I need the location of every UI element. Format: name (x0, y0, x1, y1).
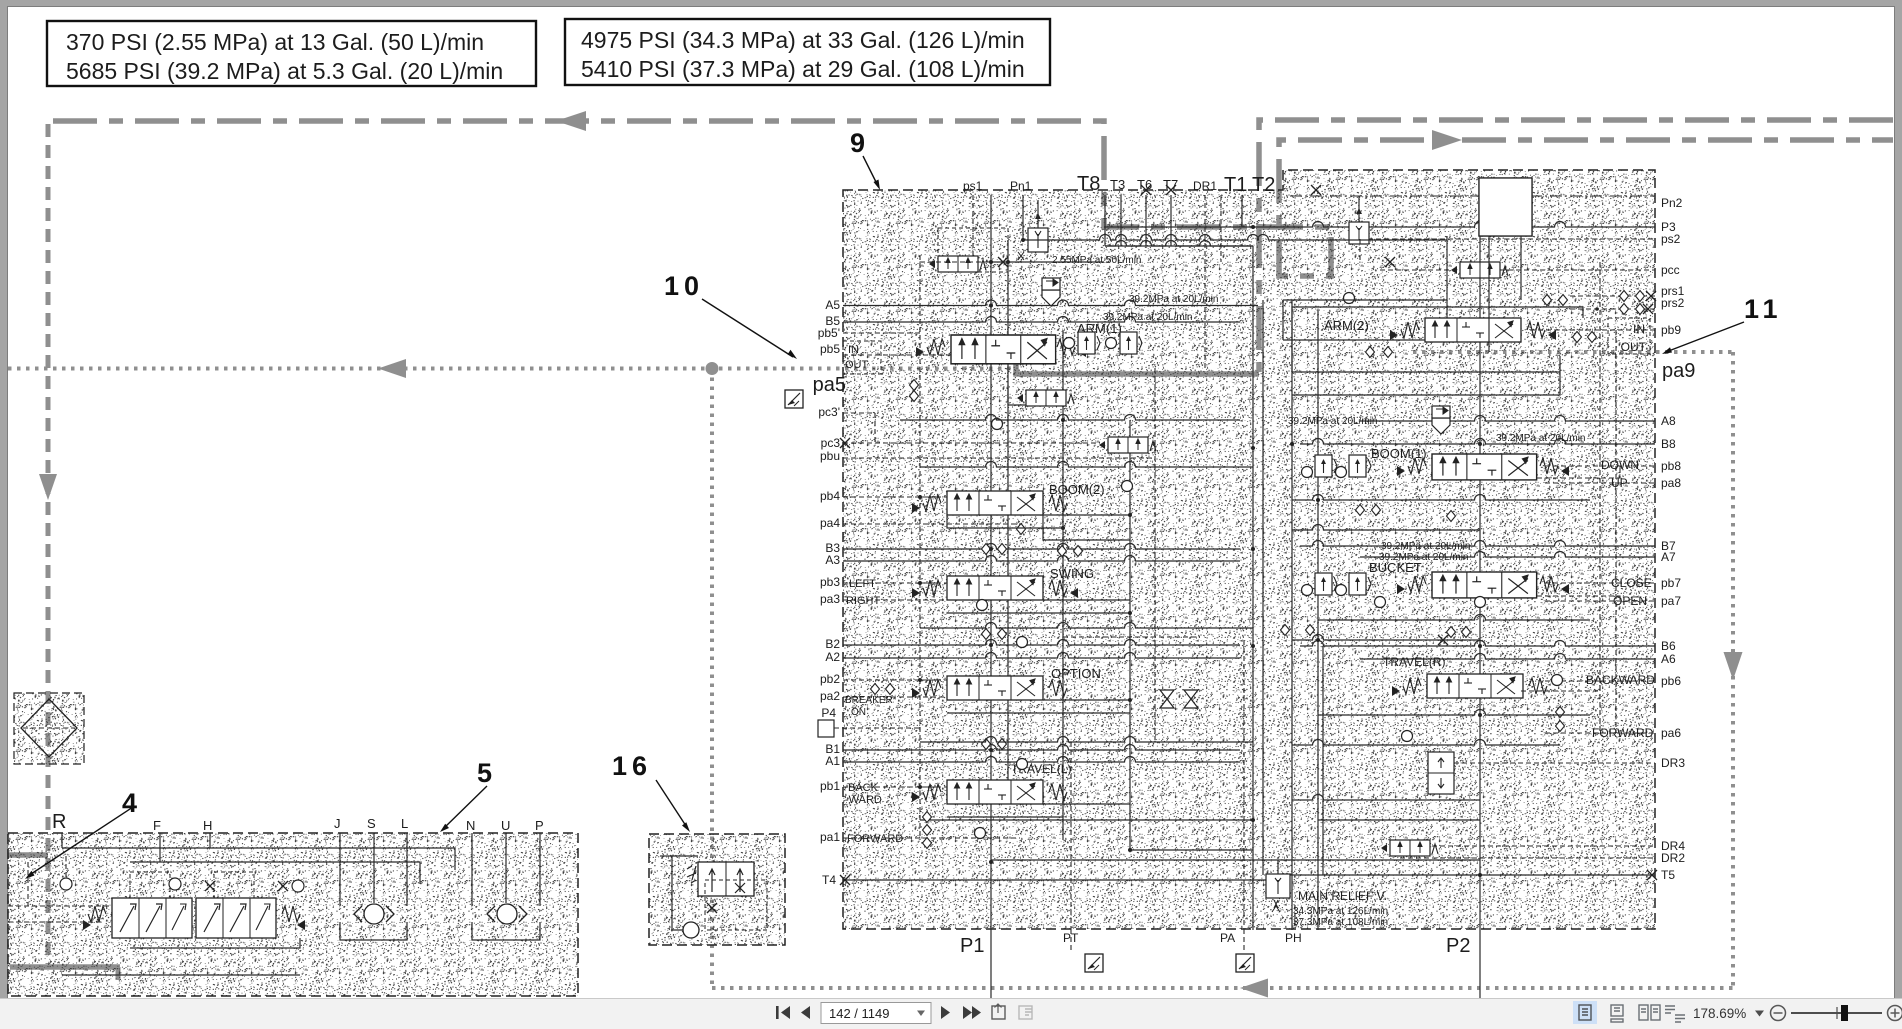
svg-text:F: F (153, 818, 161, 833)
svg-text:pa5: pa5 (813, 374, 846, 396)
wire H drop (209, 833, 211, 848)
svg-text:T8: T8 (1077, 173, 1100, 195)
svg-text:pc3': pc3' (818, 405, 840, 419)
svg-text:B8: B8 (1661, 437, 1676, 451)
wire travelR loop a (1318, 710, 1590, 716)
wire pilot relief out (991, 261, 1104, 263)
wire net l (1283, 339, 1425, 341)
wire T3 vertical (1120, 195, 1122, 246)
svg-text:T6: T6 (1137, 177, 1152, 192)
wire pump rail top (62, 848, 455, 870)
spring left of spool A (88, 906, 106, 922)
wire: right bank vertical 2 (1317, 310, 1319, 930)
svg-text:BACK: BACK (848, 782, 879, 794)
svg-text:pb7: pb7 (1661, 576, 1681, 590)
wire: neutral bypass left bank (1007, 240, 1009, 790)
svg-text:J: J (334, 816, 341, 831)
svg-text:RIGHT: RIGHT (846, 595, 881, 607)
wire T6 vertical (1145, 195, 1147, 246)
orifice travelL (923, 812, 932, 823)
wire block16 dashed box (705, 880, 767, 930)
svg-text:Pn1: Pn1 (1010, 179, 1032, 193)
valve: boom2 aux (1099, 437, 1156, 453)
valve ARM(2) spool (1425, 318, 1521, 342)
svg-text:T2: T2 (1252, 174, 1275, 196)
wire: center tank return vertical (1252, 246, 1254, 930)
svg-text:T4: T4 (822, 873, 836, 887)
svg-text:A5: A5 (825, 298, 840, 312)
wire pump dash v (65, 856, 67, 878)
wire N drop (471, 833, 473, 906)
pilot cap B (214, 872, 254, 898)
arrow left on pa5 dotted line (378, 359, 406, 378)
svg-text:FORWARD: FORWARD (847, 833, 903, 845)
wire DR1 vertical (1204, 195, 1206, 368)
svg-text:pb9: pb9 (1661, 323, 1681, 337)
tank box overdraw (1479, 178, 1532, 236)
wire ps2 riser (1359, 239, 1361, 262)
wire boom2 out a (947, 515, 1063, 528)
valve TRAVEL(L) spool (947, 780, 1043, 804)
button next page (941, 1006, 950, 1019)
valve: ARM(1) aux spool (1017, 390, 1074, 406)
valve: travel check spool (698, 862, 754, 896)
valve BOOM(2) spool (947, 491, 1043, 515)
orifice bucket (1281, 625, 1290, 636)
orifice arm2 pilots (1384, 347, 1393, 358)
button first page (776, 1006, 790, 1019)
wire: right bank vertical 3 (1446, 236, 1448, 318)
button previous page (801, 1006, 810, 1019)
IN/OUT box right (1608, 318, 1650, 354)
wire: PA drain stub (1243, 929, 1245, 953)
wire net h (1043, 514, 1130, 516)
svg-text:A6: A6 (1661, 652, 1676, 666)
svg-text:pa4: pa4 (820, 516, 840, 530)
svg-text:ON: ON (851, 707, 866, 718)
wire: pa9 dotted stub into block (1413, 350, 1733, 354)
svg-text:pb6: pb6 (1661, 674, 1681, 688)
valve: DR3 logic (1428, 752, 1454, 794)
wire Pn1 crossfeed (1023, 235, 1447, 241)
wire right out a (1292, 795, 1480, 801)
svg-text:PA: PA (1220, 931, 1235, 945)
svg-text:pa3: pa3 (820, 592, 840, 606)
valve: pcc solenoid (1451, 262, 1508, 278)
wire: bottom gallery 1 (920, 819, 1253, 821)
wire: left bank gallery (1062, 330, 1064, 820)
svg-text:A7: A7 (1661, 550, 1676, 564)
wire T8 vertical (1104, 195, 1106, 246)
wire gallery 467 (920, 462, 1253, 467)
svg-text:BACKWARD: BACKWARD (1586, 673, 1655, 687)
wire pump out (130, 938, 300, 948)
svg-text:BOOM(1): BOOM(1) (1371, 446, 1427, 461)
svg-text:39.2MPa at 20L/min: 39.2MPa at 20L/min (1381, 541, 1471, 552)
check block16 (683, 922, 699, 938)
wire net q (1322, 646, 1324, 875)
wire gallery 742 (920, 737, 1253, 743)
check pump b (169, 878, 181, 890)
connector PT (1085, 954, 1103, 972)
valve: DR4 solenoid (1381, 840, 1438, 856)
svg-text:11: 11 (1744, 294, 1783, 324)
wire gallery 420 (900, 415, 1240, 420)
svg-text:pa2: pa2 (820, 689, 840, 703)
wire: dotted bottom run to pa9 (712, 986, 1733, 990)
arrow down on right dotted riser (1724, 652, 1743, 680)
svg-text:U: U (501, 818, 510, 833)
svg-text:A1: A1 (825, 754, 840, 768)
button snapshot (992, 1004, 1005, 1019)
svg-text:T1: T1 (1224, 174, 1247, 196)
wire F drop (159, 833, 161, 862)
wire: mid drain vertical (1129, 420, 1131, 850)
svg-text:37.3MPa at 108L/min: 37.3MPa at 108L/min (1293, 917, 1388, 928)
wire net d (920, 496, 947, 498)
svg-text:5: 5 (477, 758, 497, 788)
wire: right bank feed vertical (1291, 300, 1293, 930)
wire net g (920, 786, 947, 788)
arrow left on return line (556, 111, 586, 131)
svg-text:39.2MPa at 20L/min: 39.2MPa at 20L/min (1496, 433, 1586, 444)
gallery bumps at tank ports (1105, 241, 1253, 246)
svg-text:DR2: DR2 (1661, 851, 1685, 865)
valve SWING spool (947, 576, 1043, 600)
check pump c (292, 880, 304, 892)
wire net k (1043, 803, 1130, 805)
wire ps1 vertical (972, 195, 974, 262)
svg-text:A8: A8 (1661, 414, 1676, 428)
svg-text:R: R (52, 811, 66, 833)
check bucket (1375, 597, 1386, 608)
toolbar (0, 998, 1902, 1029)
svg-text:A2: A2 (825, 650, 840, 664)
note box: main pump spec (565, 19, 1050, 85)
svg-text:pa7: pa7 (1661, 594, 1681, 608)
wire pump drop1 (61, 833, 63, 848)
wire boom1 loop a (1292, 495, 1590, 500)
wire: P2 supply vertical (1479, 236, 1481, 1002)
button snapshot 2 (disabled) (1019, 1006, 1032, 1019)
wire pilot rail right dashed (1615, 330, 1617, 733)
valve BOOM(1) spool (1432, 454, 1537, 480)
svg-text:pb1: pb1 (820, 779, 840, 793)
pilot section dashed box top-left (938, 228, 1008, 272)
svg-text:pa9: pa9 (1662, 360, 1695, 382)
svg-text:2.55MPa at 50L/min: 2.55MPa at 50L/min (1052, 255, 1142, 266)
junction dots (989, 304, 993, 308)
svg-text:4: 4 (122, 788, 142, 818)
arrow right on T2 line (1432, 130, 1462, 150)
wire mid dashed 637 (1063, 636, 1200, 638)
svg-text:T3: T3 (1110, 177, 1125, 192)
check valve boom2 (992, 419, 1003, 430)
svg-text:Pn2: Pn2 (1661, 196, 1683, 210)
check arm2 (1344, 293, 1355, 304)
svg-text:16: 16 (612, 751, 652, 781)
wire T1 vertical (1241, 195, 1243, 227)
wire net b (1008, 385, 1026, 405)
spool B third cell mark (256, 904, 270, 930)
svg-text:pcc: pcc (1661, 263, 1680, 277)
svg-text:142 / 1149: 142 / 1149 (829, 1006, 889, 1021)
svg-text:4975 PSI (34.3 MPa) at 33 Gal.: 4975 PSI (34.3 MPa) at 33 Gal. (126 L)/m… (581, 27, 1025, 53)
svg-text:pb4: pb4 (820, 489, 840, 503)
wire net n (1537, 466, 1620, 478)
zoom slider (1791, 1012, 1882, 1014)
wire L drop (406, 833, 408, 906)
orifice travelR (1556, 707, 1565, 718)
zoom out button (1771, 1006, 1786, 1021)
anti-cavitation check A8 (1432, 406, 1450, 434)
check valve JSL (364, 904, 384, 924)
valve ARM(1) main spool (951, 335, 1056, 364)
wire: bottom gallery 2 (991, 859, 1480, 861)
check option (1017, 637, 1028, 648)
wire block16 loop (672, 856, 698, 862)
wire bucket loop a (1318, 615, 1590, 620)
wire net s (1062, 820, 1064, 840)
viewer frame left (0, 0, 7, 998)
valve TRAVEL(R) spool (1427, 674, 1523, 698)
connector pa5 (785, 390, 803, 408)
junction dot on pa5 line (706, 362, 719, 375)
svg-text:pa8: pa8 (1661, 476, 1681, 490)
wire Pn1 vertical (1022, 195, 1024, 240)
svg-text:P2: P2 (1446, 935, 1470, 957)
svg-text:FORWARD: FORWARD (1592, 726, 1654, 740)
wire net a (920, 261, 1008, 263)
check pump a (60, 878, 72, 890)
ARM(2) section outline (1292, 307, 1583, 372)
wire right out b (1318, 819, 1480, 821)
wire PT riser dashed (1070, 742, 1072, 929)
page number input (821, 1003, 931, 1024)
wire U drop (505, 833, 507, 903)
valve BUCKET spool (1432, 572, 1537, 598)
svg-text:5410 PSI (37.3 MPa) at 29 Gal.: 5410 PSI (37.3 MPa) at 29 Gal. (108 L)/m… (581, 56, 1025, 82)
svg-text:39.2MPa at 20L/min: 39.2MPa at 20L/min (1288, 416, 1378, 427)
shutoff valves (1160, 690, 1174, 708)
relief pair BOOM(1) (1302, 467, 1313, 478)
svg-text:pbu: pbu (820, 449, 840, 463)
wire: center vertical 2 (1262, 300, 1264, 875)
svg-text:prs2: prs2 (1661, 296, 1685, 310)
svg-text:DR3: DR3 (1661, 756, 1685, 770)
wire pump dash v2 (27, 862, 29, 906)
svg-text:N: N (466, 818, 475, 833)
check travelR (1402, 731, 1413, 742)
orifice option (871, 684, 880, 695)
valve: pump regulator spool A (112, 898, 192, 938)
arrow down on suction line (39, 474, 57, 500)
orifice boom1 (1356, 505, 1365, 516)
wire net f (920, 679, 947, 681)
wire net m (1283, 299, 1447, 301)
svg-text:LEFT: LEFT (849, 578, 876, 590)
wire net i (1043, 599, 1130, 601)
svg-text:H: H (203, 818, 212, 833)
wire swing out (947, 612, 1130, 614)
svg-text:BOOM(2): BOOM(2) (1049, 482, 1105, 497)
svg-text:10: 10 (664, 271, 704, 301)
wire PA riser dashed (1243, 640, 1245, 929)
orifice option b (982, 739, 991, 750)
relief pair BUCKET (1302, 585, 1313, 596)
anti-cavitation check A5 (1042, 278, 1060, 306)
wire JSL bottom (340, 922, 407, 940)
svg-text:ps2: ps2 (1661, 232, 1681, 246)
wire NUP bottom (472, 922, 540, 940)
relief pair ARM(1) (1064, 338, 1075, 349)
wire arm2 loop (1292, 356, 1560, 395)
svg-text:9: 9 (850, 128, 870, 158)
svg-text:P: P (535, 818, 544, 833)
spring block16 (687, 866, 696, 883)
orifice pair near pb5 (910, 380, 919, 391)
svg-text:pc3: pc3 (821, 436, 841, 450)
filter F1 element (21, 699, 77, 757)
svg-text:pb3: pb3 (820, 575, 840, 589)
svg-text:ps1: ps1 (963, 179, 983, 193)
wire: right bank pilot rail (1599, 262, 1601, 733)
svg-text:B6: B6 (1661, 639, 1676, 653)
zoom in button (1888, 1006, 1902, 1021)
relief valve MAIN RELIEF V. (1266, 874, 1290, 898)
spool A third cell mark (172, 904, 186, 930)
svg-text:5685 PSI (39.2 MPa) at 5.3 Gal: 5685 PSI (39.2 MPa) at 5.3 Gal. (20 L)/m… (66, 58, 503, 84)
viewer frame right (1894, 0, 1902, 998)
wire T2 vertical (1220, 195, 1222, 262)
svg-text:T5: T5 (1661, 868, 1675, 882)
tank legs (1488, 236, 1490, 352)
wire tank gallery (1105, 245, 1253, 247)
svg-text:OUT: OUT (845, 359, 869, 371)
wire: tank return line T1 (thick grey dashed) (1259, 120, 1893, 372)
svg-text:370 PSI (2.55 MPa) at 13 Gal.: 370 PSI (2.55 MPa) at 13 Gal. (50 L)/min (66, 29, 484, 55)
wire pc3 elbow (874, 413, 876, 443)
svg-text:34.3MPa at 126L/min: 34.3MPa at 126L/min (1293, 906, 1388, 917)
svg-text:BUCKET: BUCKET (1369, 560, 1422, 575)
wire: suction line elbow lower (10, 964, 120, 970)
svg-text:pb5: pb5 (820, 342, 840, 356)
wire: pa5 pilot line (grey dotted) from left edge (8, 367, 1012, 371)
svg-text:S: S (367, 816, 376, 831)
check dr (1552, 675, 1563, 686)
svg-text:pb5': pb5' (818, 326, 840, 340)
wire net o (1537, 596, 1620, 601)
svg-text:P1: P1 (960, 935, 984, 957)
wire: tank return line T8 (thick grey dashed) (53, 121, 1893, 276)
svg-text:OPTION: OPTION (1051, 666, 1101, 681)
wire P drop (539, 833, 541, 906)
svg-text:178.69%: 178.69% (1693, 1006, 1746, 1021)
relief valve: pilot 2.55MPa (1028, 228, 1048, 252)
IN/OUT box left (843, 341, 881, 374)
svg-text:pa6: pa6 (1661, 726, 1681, 740)
wire net r (1130, 849, 1253, 851)
check block 16 outline (649, 834, 785, 945)
svg-text:CLOSE: CLOSE (1611, 576, 1652, 590)
wire net p (1521, 681, 1600, 691)
svg-text:IN: IN (848, 344, 859, 356)
svg-text:SWING: SWING (1050, 566, 1094, 581)
viewer frame top (0, 0, 1902, 6)
wire pump rail 2 (130, 862, 420, 884)
valve: pilot selector sv (929, 256, 986, 272)
svg-text:-WARD: -WARD (845, 794, 882, 806)
view mode buttons (1573, 1001, 1597, 1024)
pilot cap A (130, 872, 170, 898)
wire net j (1043, 699, 1130, 701)
connector PA (1236, 954, 1254, 972)
wire pump pilot a (8, 905, 112, 907)
svg-text:OUT: OUT (1621, 340, 1647, 354)
wire T7 vertical (1170, 195, 1172, 246)
wire option out (947, 712, 1130, 714)
wire travelR loop b (1292, 740, 1560, 746)
wire net c (938, 354, 951, 356)
wire: suction line to tank (thick grey dashed vertical) (46, 124, 51, 852)
spring right of spool B (282, 906, 300, 922)
wire net e (920, 582, 947, 584)
svg-text:MAIN RELIEF V.: MAIN RELIEF V. (1298, 889, 1387, 903)
svg-text:A3: A3 (825, 553, 840, 567)
wire: PT drain stub (1070, 929, 1072, 953)
orifice swing (982, 629, 991, 640)
svg-text:pa1: pa1 (820, 830, 840, 844)
svg-text:B2: B2 (825, 637, 840, 651)
relief valve pcc side (1349, 222, 1369, 244)
wire: pilot rail left bank (919, 255, 921, 840)
svg-text:ARM(2): ARM(2) (1324, 318, 1369, 333)
svg-text:39.2MPa at 20L/min: 39.2MPa at 20L/min (1129, 294, 1219, 305)
wire: suction line elbow upper (8, 852, 48, 858)
button last page (963, 1006, 981, 1019)
svg-text:BREAKER: BREAKER (845, 695, 893, 706)
svg-text:PH: PH (1285, 931, 1302, 945)
arrow left on bottom dotted run (1240, 979, 1268, 998)
wire boom2 out b (1043, 515, 1130, 540)
svg-text:pb8: pb8 (1661, 459, 1681, 473)
note box: pilot pump spec (47, 21, 536, 86)
wire travelL out (947, 816, 1063, 818)
check travelL (1017, 759, 1028, 770)
pump block outline (8, 833, 578, 996)
orifice boom2 (1017, 524, 1026, 535)
svg-text:IN: IN (1633, 322, 1645, 336)
wire: pa5 highlighted pilot line inside block (thick grey solid) (1016, 358, 1259, 374)
filter F1 enclosure (14, 693, 84, 764)
wire: dotted branch down to check block 16 (710, 369, 714, 989)
wire bucket loop b (1292, 635, 1480, 641)
svg-text:pb2: pb2 (820, 672, 840, 686)
svg-text:TRAVEL(R): TRAVEL(R) (1383, 655, 1445, 669)
wire pump bottom rail (62, 974, 300, 976)
wire J drop (339, 833, 341, 906)
wire DR1 lower dashed (1154, 368, 1156, 740)
wire: P1 supply vertical (990, 195, 992, 1002)
wire S drop (373, 833, 375, 903)
main control valve block outline (843, 170, 1655, 929)
wire: dotted riser at right to pa9 (1731, 352, 1735, 988)
wire pump pilot b (8, 921, 104, 923)
wire boom1 loop b (1292, 525, 1480, 531)
valve OPTION spool (947, 676, 1043, 700)
valve: pump regulator spool B (196, 898, 276, 938)
wire gallery 628 (920, 623, 1253, 629)
